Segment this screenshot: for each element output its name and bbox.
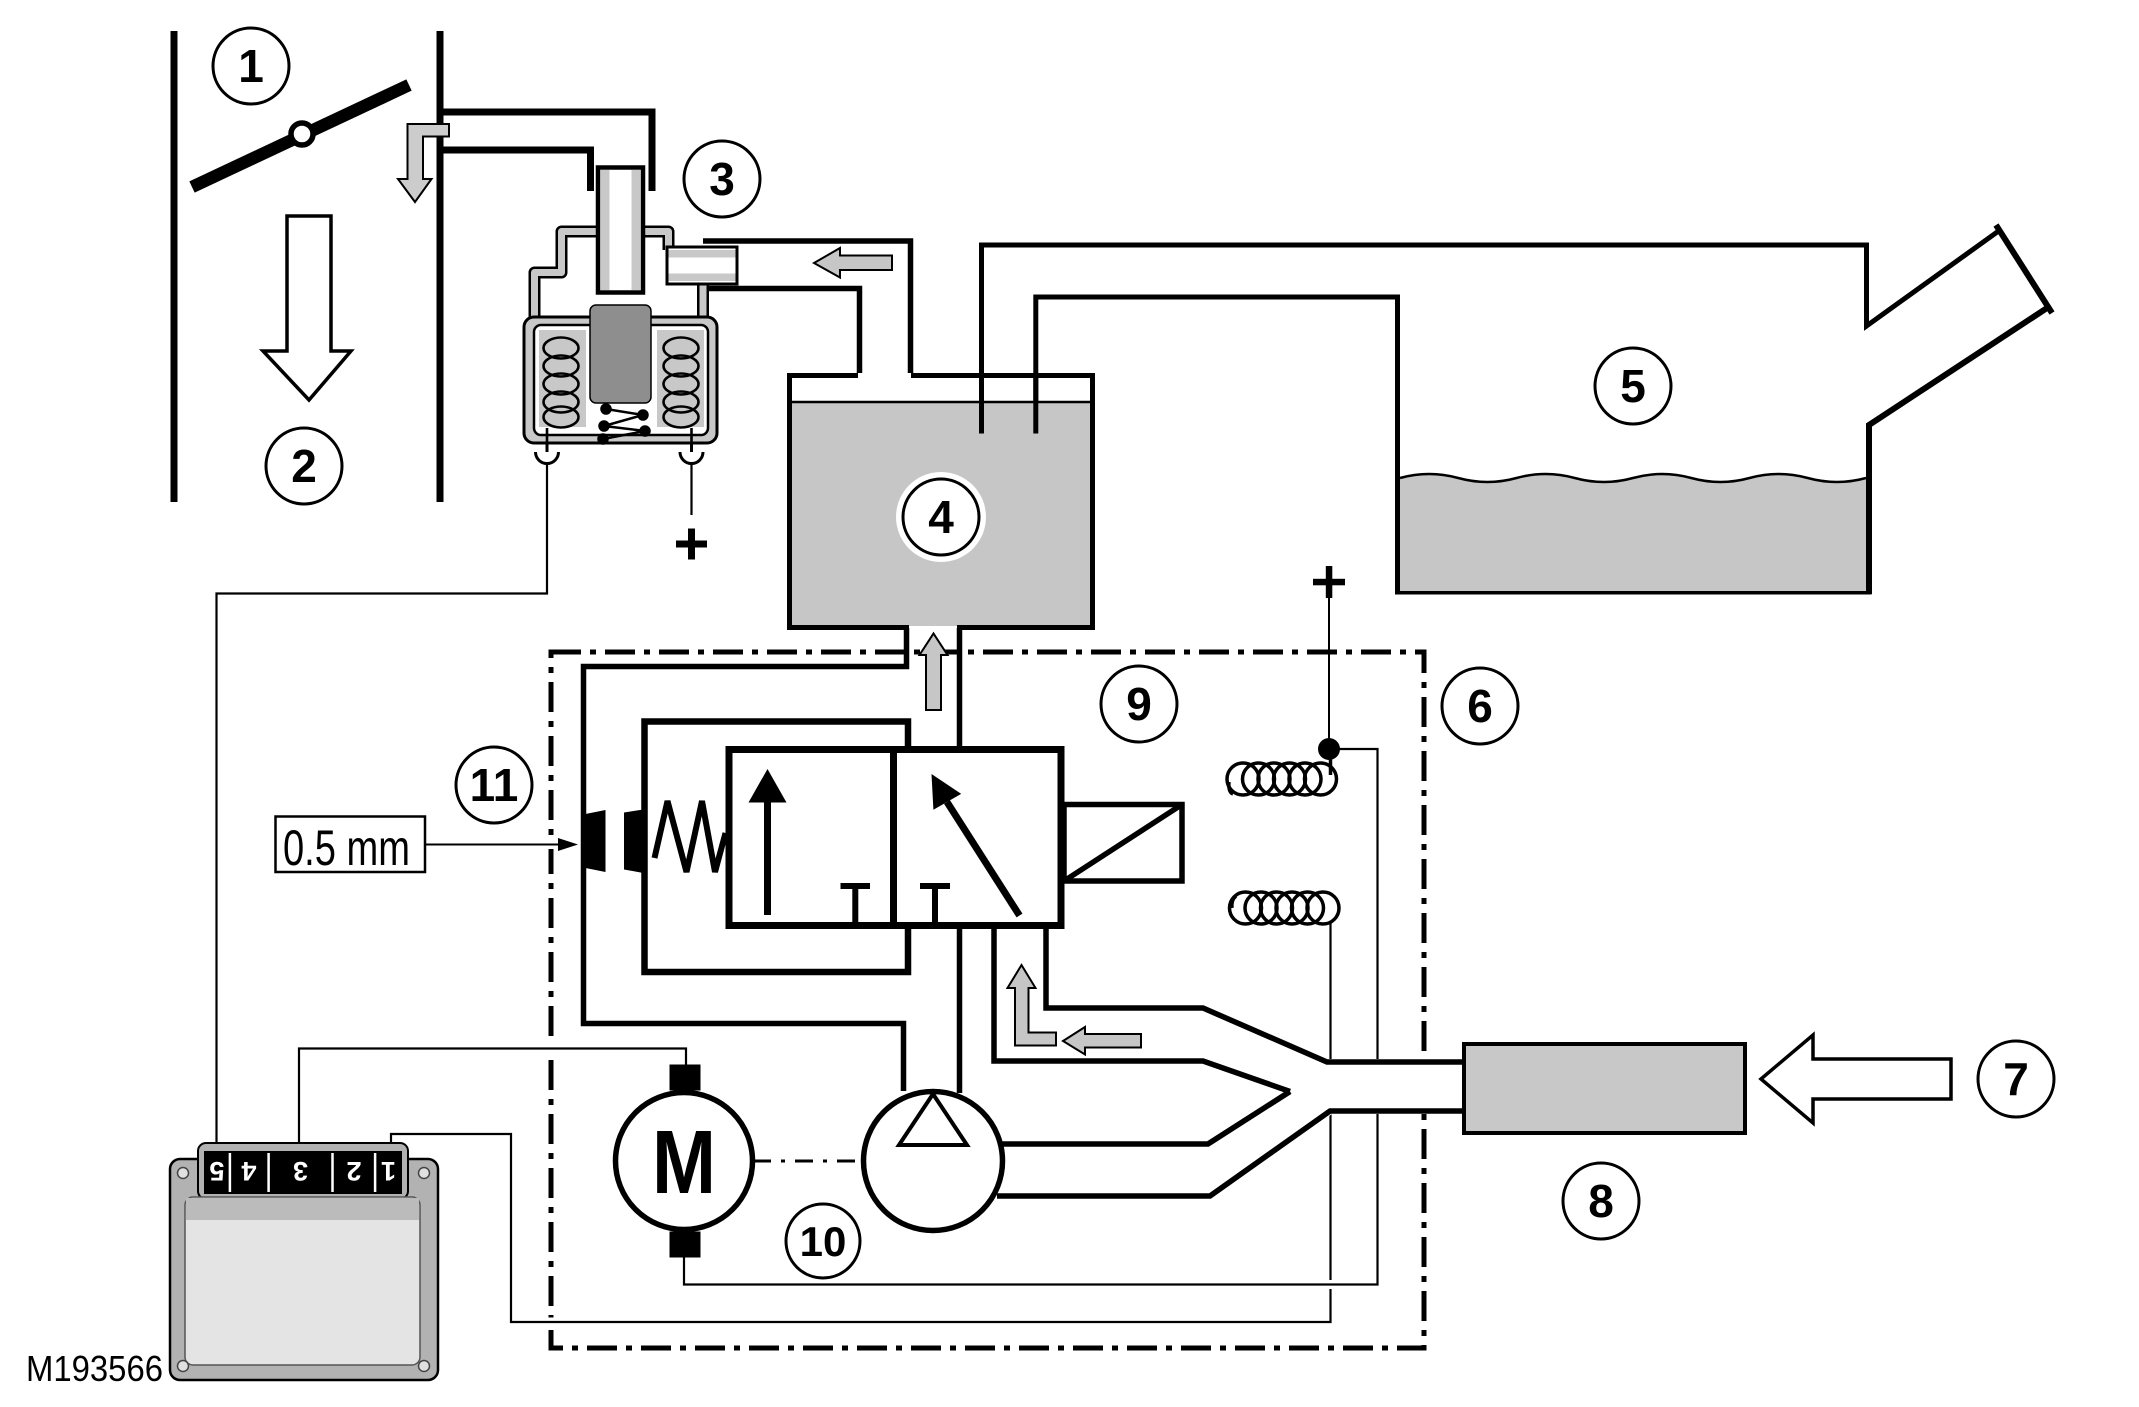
- WIRES-LAYER: [217, 462, 1378, 1322]
- svg-text:2: 2: [291, 440, 317, 492]
- svg-text:3: 3: [709, 153, 735, 205]
- valve3 plunger: [590, 305, 651, 403]
- motor top terminal: [670, 1065, 701, 1091]
- wire ECU pin3 to motor top terminal: [299, 1049, 686, 1156]
- callout 11: [456, 747, 532, 823]
- valve9 left square: [729, 750, 894, 926]
- reservoir 4 left wall: [787, 373, 792, 630]
- wire motor bottom terminal to junction: [684, 749, 1378, 1285]
- reservoir 4 dip tube right: [1033, 376, 1038, 434]
- valve3 inner chamber: [534, 325, 708, 435]
- wire valve3 left terminal to ECU pin5: [217, 462, 548, 1155]
- svg-text:5: 5: [1620, 360, 1646, 412]
- reservoir 4 top edge: [787, 373, 1095, 378]
- valve9 diagonal arrow in right square: [947, 802, 1020, 916]
- svg-text:9: 9: [1126, 678, 1152, 730]
- svg-text:0.5 mm: 0.5 mm: [283, 820, 410, 876]
- pump triangle: [899, 1094, 967, 1145]
- callout 10: [786, 1204, 860, 1278]
- motor-pump shaft dash-dot: [753, 1160, 863, 1163]
- pump circle: [864, 1092, 1003, 1231]
- Y channel upper wall: [1046, 923, 1464, 1062]
- motor bottom terminal: [670, 1232, 701, 1258]
- reservoir 4 fluid surface line: [790, 401, 1091, 404]
- valve3 body: [524, 317, 717, 443]
- motor circle: [616, 1093, 753, 1230]
- gray left arrow in pipe to valve3: [814, 248, 892, 278]
- svg-text:6: 6: [1467, 680, 1493, 732]
- big white down arrow: [263, 216, 351, 400]
- relief valve outer rectangle: [645, 722, 909, 973]
- junction dot: [1318, 738, 1340, 760]
- callout 5: [1595, 348, 1671, 424]
- reservoir 4 bottom edge: [787, 625, 1095, 630]
- valve3 gray hood below port: [697, 282, 709, 319]
- valve3 return spring under plunger: [599, 405, 650, 444]
- wall line right of lever: [437, 31, 444, 502]
- valve3 left coil block: [539, 330, 586, 427]
- svg-text:1: 1: [238, 40, 264, 92]
- valve3 right terminal hook: [690, 443, 693, 452]
- coil upper: [1227, 749, 1337, 795]
- callout 7: [1978, 1041, 2054, 1117]
- Y channel crotch upper arm: [994, 923, 1290, 1092]
- valve9 T symbol right square: [920, 886, 950, 926]
- svg-text:4: 4: [241, 1156, 256, 1186]
- PIPES-LAYER: [174, 31, 2052, 1199]
- valve3 right coil winding: [664, 338, 699, 444]
- bypass pipe around valve left side: [584, 628, 907, 1091]
- Y channel bottom wall: [997, 1111, 1464, 1196]
- pipe elbow lower from wall to valve3 tube left: [443, 150, 591, 191]
- ECU screws: [178, 1168, 430, 1372]
- callout 2: [266, 428, 342, 504]
- ECU pin numbers (rotated): [209, 1156, 396, 1186]
- svg-text:M193566: M193566: [26, 1348, 163, 1389]
- valve3 right coil block: [657, 330, 704, 427]
- svg-text:3: 3: [293, 1156, 308, 1186]
- solenoid box: [1064, 805, 1182, 882]
- svg-text:1: 1: [381, 1156, 396, 1186]
- ECU connector black block: [204, 1151, 402, 1194]
- plus symbol above box6: [1313, 566, 1345, 598]
- valve3 tube left gray stripe: [600, 170, 609, 290]
- svg-text:11: 11: [470, 759, 519, 811]
- gray left arrow at Y junction: [1063, 1027, 1141, 1055]
- tank 5 fluid with wavy surface: [1400, 474, 1866, 591]
- valve3 left coil winding: [544, 338, 579, 444]
- svg-text:10: 10: [800, 1218, 847, 1265]
- callout 8: [1563, 1163, 1639, 1239]
- wire battery plus to junction dot: [1328, 598, 1330, 749]
- ECU inner panel: [185, 1197, 420, 1365]
- svg-text:7: 7: [2003, 1053, 2029, 1105]
- nozzle left black cone: [586, 810, 606, 872]
- gray elbow arrow below lever: [398, 124, 449, 202]
- callout 9: [1101, 666, 1177, 742]
- pipe valve3 port to reservoir bottom wall: [705, 289, 860, 374]
- valve3 vertical tube: [598, 168, 643, 293]
- nozzle right black cone: [624, 810, 644, 874]
- gray up arrow reservoir suction: [925, 655, 927, 710]
- Y channel crotch lower arm: [1002, 1092, 1290, 1145]
- valve9 up arrow in left square: [764, 798, 771, 915]
- wire ECU pin1 to lower coil: [391, 922, 1331, 1322]
- lever pivot: [291, 123, 313, 145]
- ECU connector collar: [198, 1143, 408, 1199]
- pipe reservoir to tank5 lower run and tank left wall: [1036, 297, 1398, 594]
- svg-text:2: 2: [346, 1156, 361, 1186]
- component box 6 dashed enclosure: [551, 652, 1424, 1348]
- 0.5mm label box: [276, 817, 426, 873]
- reservoir 4 dip tube left: [979, 376, 984, 434]
- valve9 spring: [655, 801, 726, 872]
- wire valve3 right terminal to plus: [690, 462, 692, 515]
- valve3 gray hood right side: [645, 232, 669, 251]
- white fill of Y junction channels: [991, 923, 1466, 1199]
- tank5 right wall: [1869, 308, 2047, 594]
- callout 4 with halo: [896, 472, 986, 562]
- callout 3: [684, 141, 760, 217]
- coil lower: [1230, 892, 1340, 924]
- valve3 gray hood left steps: [535, 232, 704, 320]
- svg-text:M: M: [652, 1113, 716, 1213]
- tank5 filler cap: [1996, 225, 2052, 313]
- svg-text:4: 4: [928, 491, 954, 543]
- callout 1: [213, 28, 289, 104]
- brake pedal lever: [192, 85, 409, 187]
- ECU body: [170, 1159, 438, 1380]
- pipe valve3 port to reservoir top wall: [703, 241, 911, 373]
- gray up arrow into reservoir: [920, 634, 948, 711]
- svg-text:8: 8: [1588, 1175, 1614, 1227]
- filter 8 gray block: [1464, 1044, 1745, 1133]
- big white arrow 7: [1761, 1035, 1951, 1123]
- wall line left of lever: [171, 31, 178, 502]
- gray elbow up arrow at pump inlet: [1008, 965, 1057, 1046]
- valve9 right square: [894, 750, 1062, 926]
- valve3 side port: [667, 247, 737, 284]
- valve3 left terminal hook: [546, 443, 549, 452]
- reservoir 4 right wall: [1090, 373, 1095, 630]
- pipe elbow upper from wall to valve3 tube right: [440, 112, 652, 191]
- plus symbol below valve3: [676, 529, 707, 560]
- callout 6: [1442, 668, 1518, 744]
- suction wall valve bottom to pump: [957, 926, 963, 1094]
- svg-text:5: 5: [209, 1156, 224, 1186]
- reservoir 4 fluid: [792, 401, 1090, 626]
- tank5 bottom: [1395, 589, 1872, 595]
- LABELS-LAYER: [213, 28, 2054, 1278]
- valve9 T symbol left square: [841, 886, 871, 926]
- pipe reservoir to tank5 upper run: [982, 230, 2001, 434]
- 0.5mm leader line: [424, 840, 560, 849]
- suction channel right wall reservoir to valve: [957, 628, 963, 751]
- valve3 tube right gray stripe: [632, 170, 641, 290]
